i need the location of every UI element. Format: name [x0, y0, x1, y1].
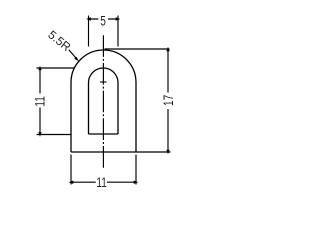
inner slot arch: [89, 68, 119, 134]
outer profile arch: [71, 50, 136, 152]
extension line left of dim 5: [88, 16, 90, 47]
centerline: [102, 35, 104, 168]
left dimension 11: dimension line: [37, 68, 75, 135]
extension line right of dim 5: [117, 16, 119, 47]
leader arrowhead: [74, 57, 79, 62]
arrowhead down left dim 11: [38, 132, 41, 137]
arrowhead left of dim 5: [86, 17, 91, 20]
svg-text:5: 5: [100, 13, 106, 29]
dimension 5 top: dimension line: [89, 16, 119, 47]
arrowhead left bottom dim 11: [69, 181, 74, 184]
extension line right bottom dim: [135, 155, 137, 185]
radius leader line 5.5R: [69, 50, 77, 59]
extension line top (arch apex level): [105, 48, 170, 50]
arrowhead right of dim 5: [116, 17, 121, 20]
arrowhead right bottom dim 11: [134, 181, 139, 184]
outer profile bottom line extended right: [71, 151, 171, 153]
arrowhead up right dim 17: [166, 47, 169, 52]
svg-text:17: 17: [160, 95, 176, 106]
inner slot bottom line: [89, 133, 119, 135]
arc center mark tick: [100, 81, 107, 83]
extension line top (inner arch apex level): [37, 67, 75, 69]
svg-text:11: 11: [32, 96, 48, 107]
extension line left bottom dim: [70, 155, 72, 185]
right dimension 17: dimension line: [105, 49, 170, 152]
extension line bottom (slot bottom level): [37, 134, 72, 136]
bottom dimension 11: dimension line: [71, 155, 136, 185]
arrowhead up left dim 11: [38, 66, 41, 71]
svg-text:11: 11: [96, 174, 107, 190]
arrowhead down right dim 17: [166, 150, 169, 155]
